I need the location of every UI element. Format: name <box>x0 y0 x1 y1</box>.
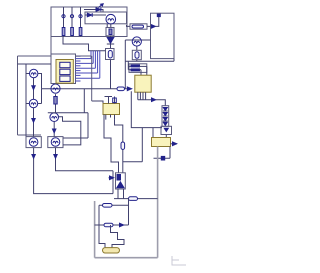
chip2 U3 <box>103 104 120 115</box>
AC source G1 <box>26 73 30 75</box>
breaker pole 2 <box>70 7 73 37</box>
IC U2 driver <box>135 75 151 92</box>
arrow into opto <box>109 177 114 179</box>
wire vertical mid <box>124 40 126 89</box>
motor enclosure box <box>85 12 127 24</box>
ladder of diodes <box>162 106 169 127</box>
diode pair to IC1 <box>127 61 129 69</box>
wire main hline y89 <box>42 88 132 90</box>
chip2 bottom pins <box>105 115 107 120</box>
wire breaker box to chain1 <box>63 37 106 51</box>
diode arrow D2 <box>85 14 106 16</box>
AC source G2 <box>26 103 29 105</box>
left dark wire down to buzzer <box>99 205 105 247</box>
wire branch x84 <box>83 89 85 113</box>
top wire from opto <box>114 198 158 200</box>
fuse box FU1 <box>130 24 147 29</box>
box C outline <box>17 56 19 135</box>
speed arrow mark <box>98 4 103 8</box>
wire boxA-left to chip box <box>50 37 52 55</box>
meter A1 <box>51 84 60 93</box>
chip box (DIP) <box>51 54 76 84</box>
wire motor box right corner <box>127 25 131 26</box>
meter V1 <box>132 37 141 46</box>
wire fuse to box B with arrow <box>147 25 155 27</box>
wire box C right to chip2 <box>92 101 103 104</box>
relay right lead arrow <box>171 143 178 145</box>
meter A2 <box>50 113 59 122</box>
node stub in box B <box>155 17 158 27</box>
diode/SCR triangle chain1 <box>110 36 112 38</box>
faint logo mark <box>172 256 186 265</box>
steps to buzzer <box>111 225 125 248</box>
probe box P1 <box>26 137 41 148</box>
wire motor to chain1 <box>106 24 108 28</box>
sensor box chain1 <box>106 28 114 36</box>
meter wire <box>125 39 150 41</box>
chip bus pins <box>76 51 100 81</box>
breaker box Q1 <box>51 7 127 37</box>
wire column below G2 <box>33 108 35 137</box>
chip2 top pins <box>108 97 110 104</box>
wire chain1 down <box>110 60 112 89</box>
long wire y61 <box>125 60 174 62</box>
diode arrow D1 <box>96 8 101 12</box>
series element below A1 <box>55 94 57 113</box>
wire column x33.5 <box>33 78 35 100</box>
wire pins bus to ladder arrow <box>138 99 155 101</box>
row y205 <box>99 204 129 206</box>
row y225 <box>95 224 129 226</box>
wire top feeder <box>84 10 103 13</box>
bottom box gray border <box>94 201 96 258</box>
wire y161.8 <box>123 161 143 163</box>
probe box P2 <box>48 137 63 148</box>
control box B <box>151 13 175 58</box>
diode pair box <box>129 64 147 73</box>
wire A2 bottom to probe <box>53 122 55 137</box>
zigzag to opto <box>104 115 119 173</box>
wire A2 right loop <box>58 117 80 145</box>
relay yellow box <box>152 138 171 147</box>
rail x26 <box>25 64 27 137</box>
breaker pole 3 <box>79 7 82 37</box>
right tall wire (gray bus) <box>157 147 159 258</box>
transducer box chain1 <box>110 44 112 49</box>
resistor on top wire <box>129 197 138 201</box>
opto U4 <box>116 173 126 189</box>
resistor capsule on y89 wire <box>117 87 125 91</box>
IC U2 bottom pins <box>137 92 139 100</box>
resistor path to opto pin2 <box>115 120 123 173</box>
buzzer <box>103 248 120 253</box>
ladder bottom box <box>161 126 172 134</box>
breaker pole 1 <box>62 7 65 37</box>
motor M1 <box>106 14 116 24</box>
transducer box chain2 <box>136 47 138 51</box>
wires from probes down <box>34 148 113 194</box>
wire A1 top <box>55 84 57 85</box>
arrow into vertical <box>127 87 131 91</box>
opto bottom pins <box>117 189 119 199</box>
wire long vertical to ladder area <box>131 91 162 127</box>
wire relay pin row <box>154 157 171 159</box>
